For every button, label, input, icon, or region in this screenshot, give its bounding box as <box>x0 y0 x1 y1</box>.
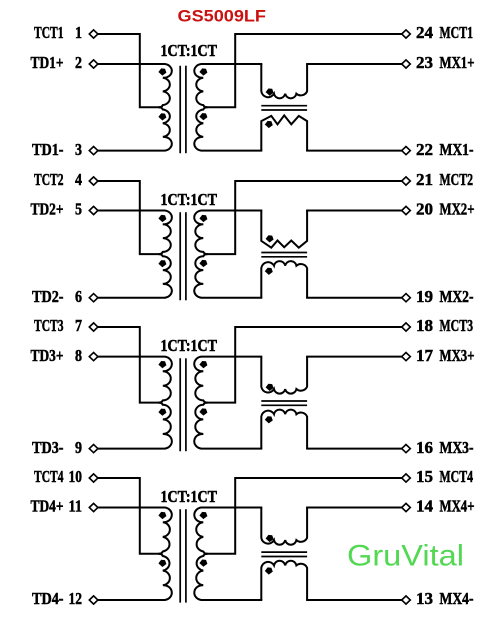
wire secondary center tap to pin 21 <box>206 181 402 254</box>
svg-text:1CT:1CT: 1CT:1CT <box>161 487 218 506</box>
pin 1 terminal diamond <box>89 30 98 38</box>
wire pin 7 to primary center-tap riser <box>98 327 161 403</box>
svg-text:TD3-: TD3- <box>32 438 64 457</box>
svg-text:23: 23 <box>416 53 433 72</box>
svg-text:15: 15 <box>416 467 433 486</box>
transformer T2 primary polarity dot lower <box>158 260 166 267</box>
pin 21 terminal diamond <box>402 177 411 185</box>
choke L2 bottom polarity dot <box>265 268 273 275</box>
svg-text:MX1-: MX1- <box>440 140 474 159</box>
transformer T4 core line right <box>185 509 187 602</box>
svg-text:TD2-: TD2- <box>32 287 64 306</box>
pin 7 terminal diamond <box>89 323 98 331</box>
transformer T3 secondary polarity dot lower <box>199 408 207 415</box>
wire secondary winding bottom to choke L3 <box>201 448 262 450</box>
svg-text:TD2+: TD2+ <box>31 200 64 219</box>
svg-text:MX3+: MX3+ <box>440 346 475 365</box>
wire choke L1 bottom to pin 22 <box>306 150 402 152</box>
transformer T4 secondary winding upper half <box>194 508 207 554</box>
wire pin 10 to primary center-tap riser <box>98 478 161 554</box>
wire choke L3 top to pin 17 <box>306 356 402 358</box>
pin 12 terminal diamond <box>89 596 98 604</box>
transformer T1 secondary winding upper half <box>194 64 207 107</box>
svg-text:5: 5 <box>75 200 82 219</box>
svg-text:24: 24 <box>416 23 434 42</box>
choke L3 top polarity dot <box>266 384 274 391</box>
transformer T4 primary polarity dot lower <box>158 560 166 567</box>
wire choke L1 top to pin 23 <box>306 63 402 65</box>
wire choke L2 bottom to pin 19 <box>306 297 402 299</box>
svg-text:1CT:1CT: 1CT:1CT <box>161 336 218 355</box>
wire pin 8 to primary winding top <box>98 356 166 358</box>
svg-text:TD4-: TD4- <box>32 589 64 608</box>
svg-text:TCT1: TCT1 <box>34 23 64 42</box>
svg-text:16: 16 <box>416 438 433 457</box>
svg-text:2: 2 <box>75 53 82 72</box>
svg-text:MX3-: MX3- <box>440 438 474 457</box>
wire choke L4 top to pin 14 <box>306 507 402 509</box>
wire choke L2 top to pin 20 <box>306 210 402 212</box>
pin 15 terminal diamond <box>402 474 411 482</box>
pin 5 terminal diamond <box>89 206 98 214</box>
transformer T2 secondary winding upper half <box>194 211 207 255</box>
choke L3 top winding <box>261 357 307 394</box>
svg-text:6: 6 <box>75 287 82 306</box>
svg-text:1: 1 <box>75 23 82 42</box>
transformer T3 primary polarity dot lower <box>158 409 166 416</box>
svg-text:22: 22 <box>416 140 433 159</box>
transformer T1 primary polarity dot upper <box>158 68 166 75</box>
svg-text:TCT3: TCT3 <box>34 316 64 335</box>
svg-text:3: 3 <box>75 140 82 159</box>
transformer T2 primary winding lower half <box>159 254 172 298</box>
svg-text:TCT4: TCT4 <box>34 467 64 486</box>
transformer T1 primary winding lower half <box>159 107 172 150</box>
transformer T3 primary polarity dot upper <box>158 361 166 368</box>
transformer T4 secondary polarity dot lower <box>199 560 207 567</box>
choke L1 core line upper <box>261 105 307 107</box>
transformer T2 secondary winding lower half <box>194 254 207 298</box>
transformer T2 core line left <box>179 212 181 300</box>
transformer T1 secondary winding lower half <box>194 107 207 150</box>
choke L1 bottom polarity dot <box>265 121 273 128</box>
choke L4 bottom polarity dot <box>265 567 273 574</box>
pin 17 terminal diamond <box>402 353 411 361</box>
choke L2 core line lower <box>261 256 307 258</box>
svg-text:7: 7 <box>75 316 82 335</box>
pin 4 terminal diamond <box>89 177 98 185</box>
svg-text:TD1+: TD1+ <box>31 53 64 72</box>
transformer T4 primary winding upper half <box>159 508 172 554</box>
svg-text:14: 14 <box>416 497 434 516</box>
choke L2 top polarity dot <box>266 235 274 242</box>
choke L4 core line upper <box>261 551 307 553</box>
wire pin 2 to primary winding top <box>98 63 166 65</box>
choke L4 bottom winding <box>261 561 307 600</box>
choke L2 top winding <box>261 211 307 248</box>
wire pin 9 to primary winding bottom <box>98 448 166 450</box>
wire pin 6 to primary winding bottom <box>98 297 166 299</box>
transformer T1 core line right <box>185 66 187 154</box>
wire secondary winding top to choke L3 <box>201 356 262 358</box>
wire pin 11 to primary winding top <box>98 507 166 509</box>
wire pin 1 to primary center-tap riser <box>98 34 161 107</box>
svg-text:TD1-: TD1- <box>32 140 64 159</box>
svg-text:9: 9 <box>75 438 82 457</box>
transformer T2 secondary polarity dot upper <box>199 215 207 222</box>
svg-text:10: 10 <box>69 467 83 486</box>
transformer T1 secondary polarity dot upper <box>199 68 207 75</box>
choke L3 core line lower <box>261 404 307 406</box>
wire secondary winding top to choke L1 <box>201 63 262 65</box>
choke L2 bottom winding <box>261 261 307 298</box>
transformer T1 primary winding upper half <box>159 64 172 107</box>
transformer T2 secondary polarity dot lower <box>199 260 207 267</box>
choke L1 bottom winding <box>261 115 307 150</box>
transformer T1 primary polarity dot lower <box>158 113 166 120</box>
transformer T3 core line left <box>179 358 181 451</box>
choke L1 core line lower <box>261 109 307 111</box>
svg-text:1CT:1CT: 1CT:1CT <box>161 41 218 60</box>
pin 2 terminal diamond <box>89 60 98 68</box>
svg-text:8: 8 <box>75 346 82 365</box>
svg-text:11: 11 <box>69 497 83 516</box>
transformer T4 primary winding lower half <box>159 554 172 600</box>
pin 18 terminal diamond <box>402 323 411 331</box>
svg-text:GS5009LF: GS5009LF <box>178 8 267 26</box>
wire secondary center tap to pin 15 <box>206 478 402 554</box>
transformer T2 primary polarity dot upper <box>158 215 166 222</box>
choke L4 top winding <box>261 508 307 545</box>
svg-text:13: 13 <box>416 589 433 608</box>
svg-text:MX4-: MX4- <box>440 589 474 608</box>
pin 11 terminal diamond <box>89 503 98 511</box>
svg-text:GruVital: GruVital <box>347 540 464 573</box>
svg-text:MX4+: MX4+ <box>440 497 475 516</box>
transformer T4 secondary winding lower half <box>194 554 207 600</box>
svg-text:20: 20 <box>416 200 433 219</box>
choke L1 top polarity dot <box>266 89 274 96</box>
transformer T4 secondary polarity dot upper <box>199 512 207 519</box>
transformer T3 primary winding upper half <box>159 357 172 403</box>
transformer T2 core line right <box>185 212 187 300</box>
choke L1 top winding <box>261 64 307 98</box>
transformer T1 secondary polarity dot lower <box>199 113 207 120</box>
svg-text:19: 19 <box>416 287 433 306</box>
wire secondary winding top to choke L4 <box>201 507 262 509</box>
choke L4 core line lower <box>261 556 307 558</box>
transformer T3 core line right <box>185 358 187 451</box>
wire choke L4 bottom to pin 13 <box>306 599 402 601</box>
pin 8 terminal diamond <box>89 353 98 361</box>
svg-text:MX1+: MX1+ <box>440 53 475 72</box>
svg-text:MCT2: MCT2 <box>440 170 474 189</box>
pin 6 terminal diamond <box>89 294 98 302</box>
choke L2 core line upper <box>261 252 307 254</box>
pin 9 terminal diamond <box>89 445 98 453</box>
wire secondary winding bottom to choke L4 <box>201 599 262 601</box>
svg-text:TCT2: TCT2 <box>34 170 64 189</box>
svg-text:MCT4: MCT4 <box>440 467 474 486</box>
pin 24 terminal diamond <box>402 30 411 38</box>
pin 3 terminal diamond <box>89 147 98 155</box>
transformer T4 core line left <box>179 509 181 602</box>
svg-text:TD3+: TD3+ <box>31 346 64 365</box>
transformer T1 core line left <box>179 66 181 154</box>
wire secondary center tap to pin 18 <box>206 327 402 403</box>
pin 13 terminal diamond <box>402 596 411 604</box>
svg-text:MX2+: MX2+ <box>440 200 475 219</box>
wire choke L3 bottom to pin 16 <box>306 448 402 450</box>
pin 22 terminal diamond <box>402 147 411 155</box>
pin 19 terminal diamond <box>402 294 411 302</box>
svg-text:17: 17 <box>416 346 434 365</box>
wire pin 12 to primary winding bottom <box>98 599 166 601</box>
svg-text:MCT1: MCT1 <box>440 23 474 42</box>
pin 20 terminal diamond <box>402 206 411 214</box>
transformer T3 secondary winding lower half <box>194 403 207 449</box>
wire secondary center tap to pin 24 <box>206 34 402 107</box>
svg-text:MX2-: MX2- <box>440 287 474 306</box>
svg-text:TD4+: TD4+ <box>31 497 64 516</box>
wire pin 5 to primary winding top <box>98 210 166 212</box>
transformer T3 secondary winding upper half <box>194 357 207 403</box>
transformer T3 secondary polarity dot upper <box>199 361 207 368</box>
pin 10 terminal diamond <box>89 474 98 482</box>
svg-text:18: 18 <box>416 316 433 335</box>
choke L3 bottom winding <box>261 410 307 449</box>
svg-text:1CT:1CT: 1CT:1CT <box>161 190 218 209</box>
svg-text:MCT3: MCT3 <box>440 316 474 335</box>
wire secondary winding top to choke L2 <box>201 210 262 212</box>
pin 23 terminal diamond <box>402 60 411 68</box>
transformer T3 primary winding lower half <box>159 403 172 449</box>
wire secondary winding bottom to choke L2 <box>201 297 262 299</box>
svg-text:21: 21 <box>416 170 433 189</box>
choke L3 core line upper <box>261 400 307 402</box>
wire secondary winding bottom to choke L1 <box>201 150 262 152</box>
wire pin 3 to primary winding bottom <box>98 150 166 152</box>
transformer T2 primary winding upper half <box>159 211 172 255</box>
svg-text:4: 4 <box>75 170 82 189</box>
pin 16 terminal diamond <box>402 445 411 453</box>
choke L3 bottom polarity dot <box>265 416 273 423</box>
choke L4 top polarity dot <box>266 535 274 542</box>
wire pin 4 to primary center-tap riser <box>98 181 161 254</box>
transformer T4 primary polarity dot upper <box>158 512 166 519</box>
svg-text:12: 12 <box>69 589 83 608</box>
pin 14 terminal diamond <box>402 503 411 511</box>
